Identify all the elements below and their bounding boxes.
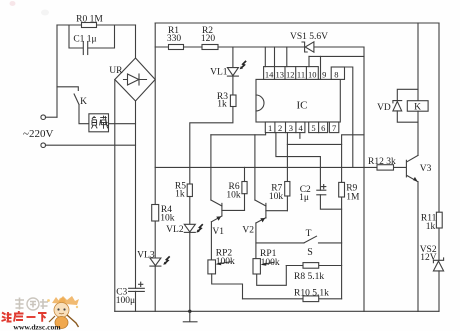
wire VS1 right drop full [363,47,365,311]
wire jog to R9 column [342,135,364,299]
wire pin8 bracket to R12 line [345,67,353,167]
wire main left vertical rail x155 [154,23,156,311]
wire R3 bottom to R5 top [190,107,233,185]
svg-text:S: S [307,247,313,258]
wire left rail [56,25,58,117]
svg-text:C1 1μ: C1 1μ [73,34,96,44]
capacitor C2 [317,189,326,191]
wire bridge bottom drop [135,101,137,288]
svg-text:~220V: ~220V [23,128,53,140]
svg-text:VL2: VL2 [166,225,184,235]
resistor R0 [82,23,97,28]
resistor R5 [187,184,192,197]
svg-text:1μ: 1μ [299,193,309,203]
svg-text:13: 13 [275,69,284,79]
wire pin1 line [211,133,266,135]
svg-text:R0 1M: R0 1M [76,15,103,25]
resistor R9 [339,182,345,197]
resistor R2 [202,45,218,50]
wire bottom rail [115,310,439,312]
zener VS2 [433,258,443,263]
relay coil K [407,101,428,112]
watermark mascot [47,296,79,329]
svg-text:VL1: VL1 [210,67,228,77]
svg-text:UR: UR [109,66,123,76]
svg-text:5: 5 [311,123,315,133]
ground [188,310,191,313]
resistor R1 [169,45,184,50]
svg-text:V1: V1 [212,227,224,237]
svg-text:1k: 1k [175,190,185,200]
svg-text:1k: 1k [426,222,436,232]
node upper terminal [41,115,46,120]
load box 负载 [89,114,109,132]
IC U1 body [256,79,340,122]
svg-text:1: 1 [268,123,272,133]
svg-text:2: 2 [278,123,282,133]
pin 8 box [331,67,344,79]
wire pin12 riser [286,47,288,67]
IC top pin boxes 14-10 [264,67,319,80]
transistor V3 [407,155,418,161]
switch K [57,87,78,91]
wire pin14 riser [264,47,266,67]
bridge rectifier UR [115,58,155,101]
svg-text:4: 4 [298,123,303,133]
wire pin2 to C2 [276,133,321,191]
watermark red text 维库一下 [2,311,47,322]
lightning arrow VL3 [165,256,170,263]
LED VL1 [232,47,234,68]
wire pin4 stub [299,133,301,139]
zener VS1 [305,42,314,52]
svg-text:R8 5.1k: R8 5.1k [294,272,324,282]
svg-text:VS1 5.6V: VS1 5.6V [290,32,328,42]
wire VS1 sub line to pins 10 9 [309,55,364,57]
resistor R7 [285,182,290,197]
svg-text:R10 5.1k: R10 5.1k [294,289,329,299]
wire pin3 drop to R7 [286,133,288,182]
transistor V2 [254,135,256,200]
IC bottom pin boxes [265,122,305,133]
watermark faded text [15,298,48,311]
svg-text:10: 10 [308,69,317,79]
wire pin3 branch right [287,143,341,145]
svg-text:100k: 100k [261,258,280,268]
svg-text:100k: 100k [216,257,235,267]
svg-text:K: K [80,97,87,107]
wire relay drop from top rail [417,23,419,101]
svg-text:10k: 10k [269,192,284,202]
svg-text:10k: 10k [226,190,241,200]
resistor R4 [152,205,159,222]
wire long line to V3 base [155,166,406,168]
svg-text:14: 14 [265,69,274,79]
potentiometer RP1 [253,259,260,274]
svg-text:11: 11 [297,69,305,79]
resistor R3 [230,95,236,107]
wire bridge top to R0 line [135,25,137,58]
resistor R8 [286,265,341,267]
wire R0 top line [57,24,136,26]
svg-text:VL3: VL3 [137,251,155,261]
resistor R11 [436,212,442,228]
svg-text:1M: 1M [346,192,360,202]
capacitor C1 branch [69,25,83,48]
svg-text:6: 6 [321,123,325,133]
capacitor C3 [129,287,145,289]
svg-text:www.dzsc.com: www.dzsc.com [13,322,61,331]
resistor R10 [243,298,342,300]
LED VL2 [184,224,195,232]
svg-text:100μ: 100μ [116,296,135,306]
wire bridge left vertex down [114,80,116,312]
svg-text:10k: 10k [160,214,175,224]
svg-text:V2: V2 [242,226,254,236]
svg-text:120: 120 [201,34,216,44]
wire R1 R2 VS1 line [155,46,364,48]
svg-text:8: 8 [334,69,338,79]
wire right rail [438,23,440,260]
svg-text:12V: 12V [420,253,437,263]
svg-text:R12 3k: R12 3k [368,157,396,167]
svg-text:12: 12 [286,69,295,79]
resistor R12 [377,165,394,170]
svg-text:1k: 1k [217,100,227,110]
lightning arrow VL2 [198,224,203,231]
svg-text:VD: VD [377,103,391,113]
wire top rail [155,22,439,24]
LED VL3 [150,258,161,266]
svg-text:IC: IC [297,100,308,112]
resistor R6 [242,182,247,194]
svg-text:T: T [306,229,312,239]
wire pin13 riser [274,47,276,67]
svg-text:330: 330 [167,34,182,44]
potentiometer RP2 [208,260,216,274]
switch S with T label [256,242,304,244]
faint smudges top left [10,1,16,6]
lightning arrow VL1 [241,61,246,68]
svg-text:V3: V3 [420,164,432,174]
svg-text:3: 3 [289,123,293,133]
node lower terminal [41,143,46,148]
diode VD parallel loop [397,89,418,100]
svg-text:9: 9 [322,69,326,79]
wire load to bridge [109,123,136,125]
transistor V1 [210,135,212,200]
svg-text:7: 7 [332,123,336,133]
